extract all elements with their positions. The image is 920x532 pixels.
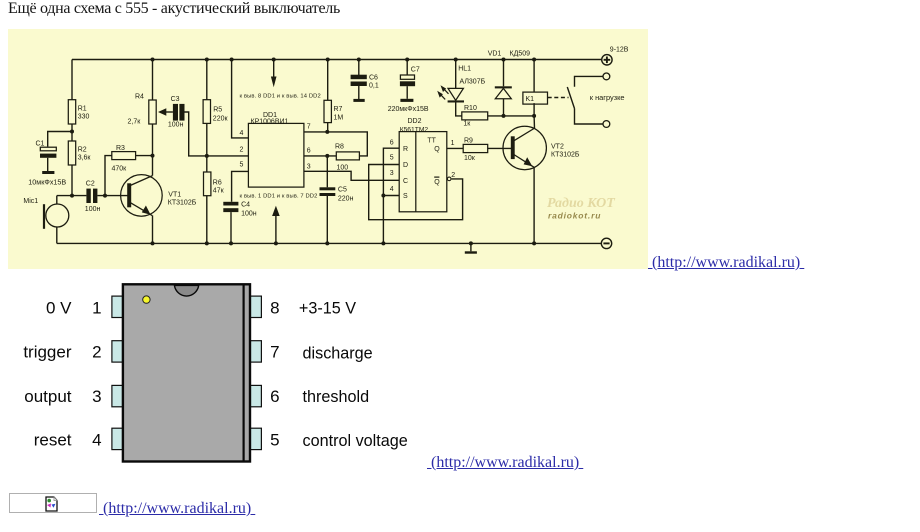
junction bottom rail ground stub bbox=[469, 241, 473, 245]
svg-text:trigger: trigger bbox=[23, 343, 72, 362]
svg-text:1: 1 bbox=[92, 299, 101, 318]
wire R5 bottom bbox=[206, 123, 208, 155]
IC notch bbox=[174, 285, 198, 296]
IC pin 4 left pin bbox=[112, 428, 123, 449]
wire R7 top bbox=[327, 60, 329, 101]
svg-text:VT2: VT2 bbox=[551, 143, 564, 150]
wire switch blade bbox=[567, 87, 574, 109]
svg-text:5: 5 bbox=[240, 162, 244, 169]
IC pin 5 right pin bbox=[250, 428, 262, 449]
junction bottom rail VT1 emitter bbox=[151, 241, 155, 245]
resistor R9 bbox=[463, 144, 488, 152]
junction top rail K1 bbox=[532, 58, 536, 62]
wire VT1 emitter vertical bbox=[152, 215, 154, 243]
wire K1 dashed link bbox=[548, 97, 569, 99]
svg-text:discharge: discharge bbox=[303, 345, 373, 363]
capacitor C4 plates bbox=[223, 202, 238, 206]
svg-text:100: 100 bbox=[337, 165, 349, 172]
svg-text:3: 3 bbox=[307, 163, 311, 170]
svg-text:47к: 47к bbox=[213, 187, 225, 194]
capacitor C1 end bar bbox=[42, 171, 54, 174]
microphone Mic1 bbox=[46, 204, 69, 227]
wire R7 bottom bbox=[327, 123, 329, 132]
svg-text:4: 4 bbox=[240, 130, 244, 137]
svg-text:3: 3 bbox=[390, 170, 394, 177]
wire R1 top bbox=[71, 60, 73, 100]
IC pin 2 left pin bbox=[112, 341, 123, 362]
link 3 bbox=[99, 500, 255, 518]
junction top rail R4 bbox=[151, 58, 155, 62]
resistor R10 bbox=[462, 112, 488, 120]
wire C7 leads bbox=[406, 60, 408, 76]
svg-text:R5: R5 bbox=[213, 106, 222, 113]
wire R10 right to K1 node bbox=[488, 115, 534, 117]
wire C6 leads bbox=[358, 60, 360, 76]
op-amp DD1 timer box bbox=[248, 123, 304, 187]
svg-text:C7: C7 bbox=[411, 66, 420, 73]
wire DD1 pin4 bbox=[232, 60, 249, 138]
capacitor C2 plates bbox=[86, 189, 90, 203]
junction node K1 collector bbox=[532, 114, 536, 118]
svg-text:8: 8 bbox=[270, 299, 279, 318]
svg-text:C3: C3 bbox=[171, 96, 180, 103]
junction node VT1 base R3 bbox=[103, 194, 107, 198]
svg-text:6: 6 bbox=[390, 140, 394, 147]
junction bottom rail arrow bbox=[274, 241, 278, 245]
svg-text:VT1: VT1 bbox=[168, 192, 181, 199]
svg-text:К561ТМ2: К561ТМ2 bbox=[400, 126, 429, 133]
svg-text:КТ3102Б: КТ3102Б bbox=[551, 151, 580, 158]
svg-text:radiokot.ru: radiokot.ru bbox=[548, 211, 601, 221]
capacitor C7 plus plate bbox=[400, 75, 414, 79]
wire HL1 top bbox=[455, 60, 457, 89]
IC pin 6 right pin bbox=[250, 385, 262, 406]
wire mic top bbox=[56, 196, 58, 205]
IC pin 8 right pin bbox=[250, 296, 262, 317]
transistor VT1 emitter lead bbox=[130, 203, 152, 216]
resistor R4 bbox=[149, 100, 156, 124]
555 pinout diagram bbox=[0, 280, 430, 470]
wire DD1 pin5 to C4 bbox=[232, 171, 249, 201]
transistor Q1 VT1 circle bbox=[121, 175, 163, 217]
svg-text:4: 4 bbox=[92, 431, 101, 450]
switch contact top bbox=[603, 73, 610, 80]
resistor R8 bbox=[336, 152, 359, 160]
svg-text:10к: 10к bbox=[464, 155, 476, 162]
svg-text:R2: R2 bbox=[78, 147, 87, 154]
svg-text:R6: R6 bbox=[213, 179, 222, 186]
resistor R7 bbox=[324, 100, 331, 122]
svg-text:2: 2 bbox=[92, 343, 101, 362]
svg-text:1M: 1M bbox=[334, 115, 344, 122]
svg-text:2: 2 bbox=[451, 172, 455, 179]
junction node R5 R6 pin2 bbox=[205, 154, 209, 158]
transistor VT1 emitter arrow head bbox=[142, 206, 151, 215]
junction node R1 R2 C1 bbox=[70, 130, 74, 134]
wire VD1 bottom bbox=[503, 99, 505, 116]
svg-text:0,1: 0,1 bbox=[369, 82, 379, 89]
junction node VD1 R10 bbox=[502, 114, 506, 118]
svg-text:КР1006ВИ1: КР1006ВИ1 bbox=[251, 119, 289, 126]
LED light arrow 1 bbox=[441, 85, 447, 92]
wire DD2 D feedback loop bbox=[369, 165, 463, 220]
broken image icon bbox=[45, 496, 59, 512]
svg-text:C1: C1 bbox=[36, 141, 45, 148]
junction node pin7 R7 bbox=[325, 130, 329, 134]
IC pin 1 left pin bbox=[112, 296, 123, 317]
svg-text:threshold: threshold bbox=[303, 388, 370, 406]
wire C1 branch bbox=[48, 132, 72, 147]
svg-text:100н: 100н bbox=[168, 121, 184, 128]
wire R4 top bbox=[152, 60, 154, 101]
svg-text:R9: R9 bbox=[464, 137, 473, 144]
junction top rail VD1 bbox=[502, 58, 506, 62]
svg-text:6: 6 bbox=[307, 147, 311, 154]
resistor R5 bbox=[203, 100, 210, 124]
svg-text:K1: K1 bbox=[526, 96, 535, 103]
svg-text:VD1: VD1 bbox=[488, 51, 502, 58]
svg-text:1: 1 bbox=[451, 140, 455, 147]
svg-text:КД509: КД509 bbox=[510, 51, 531, 58]
potentiometer R4 wiper arrow head bbox=[158, 108, 166, 116]
LED HL1 triangle bbox=[448, 88, 463, 100]
wire ground stub bbox=[470, 243, 472, 251]
svg-text:D: D bbox=[403, 162, 408, 169]
svg-text:R8: R8 bbox=[335, 143, 344, 150]
svg-text:10мкФх15В: 10мкФх15В bbox=[28, 178, 66, 187]
schematic text labels bbox=[23, 47, 628, 218]
svg-text:7: 7 bbox=[307, 123, 311, 130]
svg-text:к выв. 8 DD1 и к выв. 14 DD2: к выв. 8 DD1 и к выв. 14 DD2 bbox=[240, 94, 321, 100]
wire C3 right to DD1 pin2 bbox=[185, 112, 249, 156]
svg-text:Mic1: Mic1 bbox=[23, 198, 38, 205]
wire mic to C2 bbox=[57, 195, 87, 197]
wire C4 bottom bbox=[230, 212, 232, 243]
title bbox=[8, 0, 340, 18]
svg-text:R7: R7 bbox=[334, 106, 343, 113]
watermark radiokot bbox=[547, 196, 616, 221]
capacitor C1 bottom plate bbox=[40, 154, 56, 158]
junction bottom rail C4 bbox=[229, 241, 233, 245]
junction bottom rail ground drop bbox=[381, 241, 385, 245]
svg-text:C4: C4 bbox=[241, 202, 250, 209]
transistor VT2 collector lead bbox=[514, 128, 535, 141]
wire R5 top bbox=[206, 60, 208, 100]
resistor R1 bbox=[68, 100, 75, 124]
wire VT2 emitter vertical bbox=[533, 167, 535, 243]
svg-text:3: 3 bbox=[92, 387, 101, 406]
wire C2 to VT1 base bbox=[97, 195, 128, 197]
DD2 inverted output bubble bbox=[447, 177, 451, 181]
wire R2 bottom bbox=[71, 165, 73, 196]
transistor VT1 collector lead bbox=[130, 176, 152, 186]
wire mic bottom bbox=[56, 227, 58, 244]
resistor R2 bbox=[68, 141, 75, 165]
op-amp DD2 flip-flop box bbox=[399, 132, 447, 212]
svg-text:0 V: 0 V bbox=[46, 299, 72, 318]
svg-text:Радио КОТ: Радио КОТ bbox=[547, 196, 616, 211]
diode VD1 cathode bar bbox=[495, 86, 512, 88]
wire C3 wiper to R4 bbox=[165, 111, 173, 113]
wire R1-R2 bbox=[71, 124, 73, 141]
svg-text:4: 4 bbox=[390, 186, 394, 193]
wire R9 to VT2 base bbox=[488, 147, 512, 149]
IC body NE555 DIP-8 bbox=[123, 284, 250, 461]
wire K1 top bbox=[533, 60, 535, 93]
microphone bar bbox=[43, 204, 45, 229]
svg-text:S: S bbox=[403, 193, 408, 200]
junction top rail R5 bbox=[205, 58, 209, 62]
junction node S ground drop bbox=[381, 194, 385, 198]
wire arrow down from rail bbox=[273, 60, 275, 79]
svg-text:9-12В: 9-12В bbox=[610, 47, 629, 54]
junction bottom rail R6 bbox=[205, 241, 209, 245]
svg-text:100н: 100н bbox=[241, 211, 257, 218]
svg-text:C2: C2 bbox=[86, 181, 95, 188]
svg-text:100н: 100н bbox=[85, 206, 101, 213]
wire DD2 Q to R9 bbox=[447, 147, 463, 149]
wire top rail bbox=[72, 59, 602, 61]
IC pin 3 left pin bbox=[112, 385, 123, 406]
svg-text:КТ3102Б: КТ3102Б bbox=[168, 200, 197, 207]
svg-text:470к: 470к bbox=[112, 166, 128, 173]
svg-text:output: output bbox=[24, 387, 72, 406]
junction top rail HL1 bbox=[454, 58, 458, 62]
svg-text:330: 330 bbox=[78, 114, 90, 121]
link 2 bbox=[427, 454, 583, 472]
wire switch bottom stub bbox=[575, 109, 604, 125]
wire base node up to R3 bbox=[105, 156, 112, 196]
junction bottom rail VT2 emitter bbox=[532, 241, 536, 245]
svg-text:7: 7 bbox=[270, 343, 279, 362]
svg-text:220к: 220к bbox=[213, 115, 229, 122]
capacitor C6 plates bbox=[351, 75, 367, 80]
wire VT2 collector vertical bbox=[533, 116, 535, 129]
svg-text:R1: R1 bbox=[78, 106, 87, 113]
transistor VT2 emitter arrow head bbox=[524, 157, 533, 166]
svg-text:к нагрузке: к нагрузке bbox=[590, 93, 625, 102]
junction node A R3 R4 collector bbox=[151, 154, 155, 158]
capacitor C7 end bar bbox=[400, 99, 413, 102]
resistor R3 bbox=[112, 152, 136, 160]
transistor VT1 base bar bbox=[127, 183, 131, 207]
svg-text:Q: Q bbox=[434, 146, 440, 153]
svg-text:5: 5 bbox=[390, 154, 394, 161]
diode VD1 triangle bbox=[495, 88, 511, 98]
wire C1 lower lead bbox=[47, 158, 49, 171]
wire DD2 R stub and ground drop bbox=[383, 148, 399, 243]
wire DD1 pin7 to R7 and R8 right bbox=[304, 132, 367, 156]
junction top rail C6 bbox=[357, 58, 361, 62]
wire R3 right bbox=[136, 155, 153, 157]
link 1 bbox=[648, 254, 804, 272]
schematic image bbox=[8, 29, 648, 269]
wire C5 bottom bbox=[326, 196, 328, 243]
wire DD1 pin3 to DD2 C bbox=[304, 171, 399, 180]
junction top rail arrow drop bbox=[272, 58, 276, 62]
svg-text:C6: C6 bbox=[369, 75, 378, 82]
svg-text:+3-15 V: +3-15 V bbox=[299, 300, 356, 318]
svg-text:R10: R10 bbox=[464, 105, 477, 112]
wire VD1 top bbox=[503, 60, 505, 87]
wire arrow up from rail bbox=[275, 215, 277, 243]
svg-text:R4: R4 bbox=[135, 94, 144, 101]
capacitor C3 plates bbox=[173, 104, 178, 121]
junction top rail pin4 drop bbox=[230, 58, 234, 62]
arrow to DD1 pin8 head bbox=[271, 77, 277, 88]
svg-text:HL1: HL1 bbox=[458, 66, 471, 73]
svg-text:3,6к: 3,6к bbox=[78, 155, 92, 162]
terminal minus bbox=[601, 238, 611, 248]
svg-text:Q: Q bbox=[434, 179, 440, 186]
svg-text:DD2: DD2 bbox=[408, 118, 422, 125]
wire HL1 cathode to R10 bbox=[456, 103, 462, 116]
wire switch top stub bbox=[575, 76, 604, 86]
LED HL1 cathode bar bbox=[448, 100, 464, 102]
svg-text:1к: 1к bbox=[463, 121, 471, 128]
switch contact bottom bbox=[603, 121, 610, 128]
LED light arrow 2 bbox=[437, 91, 443, 98]
arrow to DD1 pin1 head bbox=[272, 206, 280, 216]
svg-text:к выв. 1 DD1 и к выв. 7 DD2: к выв. 1 DD1 и к выв. 7 DD2 bbox=[240, 194, 318, 200]
junction bottom rail C5 bbox=[325, 241, 329, 245]
wire DD2 S stub bbox=[383, 195, 399, 197]
wire R6 bottom bbox=[206, 196, 208, 244]
svg-text:АЛ307Б: АЛ307Б bbox=[460, 79, 486, 86]
transistor Q2 VT2 circle bbox=[503, 126, 546, 169]
wire bottom rail bbox=[57, 242, 601, 244]
junction top rail C7 bbox=[405, 58, 409, 62]
wire R6 top bbox=[206, 156, 208, 172]
broken image box bbox=[9, 493, 97, 513]
capacitor C1 plus plate bbox=[40, 147, 56, 151]
transistor VT2 base bar bbox=[511, 136, 515, 159]
svg-text:control voltage: control voltage bbox=[303, 432, 408, 450]
svg-text:C5: C5 bbox=[338, 187, 347, 194]
svg-text:R3: R3 bbox=[116, 145, 125, 152]
capacitor C5 plates bbox=[320, 187, 336, 190]
svg-text:TT: TT bbox=[427, 138, 436, 145]
svg-text:C: C bbox=[403, 178, 408, 185]
IC body bevel line bbox=[243, 285, 245, 461]
relay K1 bbox=[523, 92, 548, 104]
svg-text:2: 2 bbox=[240, 147, 244, 154]
resistor R6 bbox=[204, 172, 211, 196]
wire VT1 collector vertical bbox=[152, 156, 154, 176]
transistor VT2 emitter lead bbox=[514, 155, 534, 168]
svg-text:5: 5 bbox=[270, 431, 279, 450]
junction node R2 mic wire bbox=[70, 194, 74, 198]
svg-text:6: 6 bbox=[270, 387, 279, 406]
svg-text:R: R bbox=[403, 146, 408, 153]
wire R4 bottom bbox=[152, 124, 154, 156]
capacitor C6 end bar bbox=[353, 99, 364, 102]
wire DD1 pin6 bbox=[304, 155, 336, 157]
svg-text:reset: reset bbox=[34, 431, 72, 450]
ground bar bbox=[465, 251, 477, 253]
wire K1 bottom bbox=[533, 103, 535, 116]
wire C5 top bbox=[326, 156, 328, 187]
svg-text:2,7к: 2,7к bbox=[128, 119, 142, 126]
IC pin1 yellow dot bbox=[143, 296, 150, 303]
capacitor C7 bottom plate bbox=[400, 81, 415, 86]
terminal +9-12V bbox=[602, 55, 612, 65]
junction node pin6 R8 C5 bbox=[325, 154, 329, 158]
svg-text:220мкФх15В: 220мкФх15В bbox=[388, 106, 429, 113]
junction top rail R7 bbox=[326, 58, 330, 62]
svg-text:220н: 220н bbox=[338, 196, 354, 203]
IC pin 7 right pin bbox=[250, 341, 262, 362]
